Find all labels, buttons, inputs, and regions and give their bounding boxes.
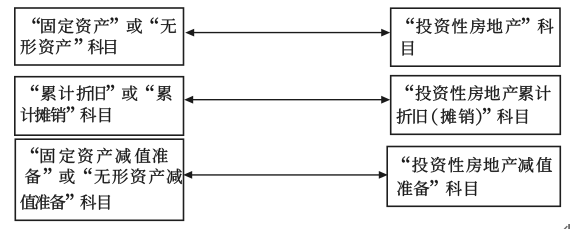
box L1 固定资产/无形资产 <box>15 8 184 65</box>
box L2 累计折旧/累计摊销 <box>15 77 184 136</box>
text L3 line3: 值准备”科目 <box>20 194 110 210</box>
text L3 line1: “固定资产减值准 <box>31 147 168 163</box>
arrow L3-R3 (double-headed) <box>183 171 388 179</box>
text L3 line2: 备”或“无形资产减 <box>25 168 182 184</box>
text R2 line2: 折旧（摊销）”科目 <box>397 108 528 126</box>
text L2 line2: 计摊销”科目 <box>21 107 111 123</box>
box R1 投资性房地产 <box>391 8 560 66</box>
text R3 line1: “投资性房地产减值 <box>402 157 552 173</box>
arrow L1-R1 (double-headed) <box>185 29 390 37</box>
text L1 line2: 形资产”科目 <box>21 38 117 54</box>
box L3 固定资产减值准备/无形资产减值准备 <box>15 139 183 220</box>
text R1 line2: 目 <box>403 41 414 56</box>
box R3 投资性房地产减值准备 <box>387 147 560 207</box>
partial paragraph mark at bottom-right corner <box>564 224 570 229</box>
text L1 line1: “固定资产”或“无 <box>33 18 177 34</box>
text R3 line2: 准备”科目 <box>397 180 477 196</box>
box R2 投资性房地产累计折旧（摊销） <box>391 76 561 135</box>
text R2 line1: “投资性房地产累计 <box>406 85 551 101</box>
text R1 line1: “投资性房地产”科 <box>406 18 553 34</box>
text L2 line1: “累计折旧”或“累 <box>31 85 171 101</box>
arrow L2-R2 (double-headed) <box>184 96 390 104</box>
